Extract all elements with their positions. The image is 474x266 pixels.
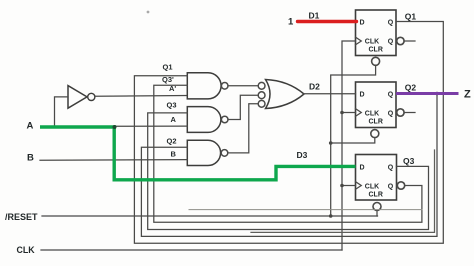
NAND gate G2 (Q3,A) (187, 107, 228, 133)
NAND gate G1 (Q1,Q3',A') (187, 73, 228, 99)
svg-text:Q3: Q3 (167, 100, 177, 109)
U2 Qbar stub (404, 40, 415, 42)
OR gate G4 with inverted inputs (258, 80, 304, 109)
junction CLR bus at U3 (329, 141, 333, 145)
svg-text:Q2: Q2 (405, 83, 417, 93)
scan speck (147, 11, 150, 14)
svg-text:Q: Q (388, 184, 394, 191)
wire Z output (purple) (396, 92, 459, 95)
svg-text:Q3: Q3 (403, 156, 415, 166)
U3 CLK triangle (356, 109, 362, 117)
svg-text:Q: Q (388, 39, 394, 46)
svg-text:B: B (27, 153, 34, 164)
wire G2 out to G4 in2 (228, 95, 258, 119)
svg-text:A': A' (169, 84, 176, 93)
svg-text:D3: D3 (297, 150, 308, 160)
svg-text:D2: D2 (309, 82, 320, 92)
svg-text:/RESET: /RESET (5, 212, 38, 222)
inverter U1 (68, 86, 95, 109)
U2 CLK triangle (356, 37, 362, 45)
wire inverter input tap from A (55, 97, 69, 127)
U2 Qbar bubble (397, 37, 404, 44)
wire CLK input (41, 249, 342, 251)
svg-text:CLR: CLR (369, 192, 383, 199)
U4 Qbar bubble (397, 182, 404, 189)
wire D2 from G4 to U3 (304, 93, 356, 95)
svg-text:D: D (360, 19, 365, 26)
D flip-flop U4 box (356, 155, 397, 201)
svg-text:A: A (27, 121, 34, 132)
wire CLK bus vertical (342, 41, 356, 250)
wire A / D3 (green) (40, 127, 356, 180)
svg-text:Q: Q (388, 164, 394, 171)
D flip-flop U3 box (356, 82, 397, 128)
svg-text:Q1: Q1 (163, 63, 173, 72)
junction A green (113, 125, 117, 129)
wire D1 constant 1 (red) (298, 20, 357, 23)
NAND gate G3 (Q2,B) (187, 140, 228, 165)
U4 CLR bubble (373, 203, 381, 211)
wire Q3 feedback (148, 113, 429, 230)
svg-text:D: D (360, 164, 365, 171)
junction CLK at U4 (340, 184, 344, 188)
svg-text:Q: Q (388, 91, 394, 98)
svg-text:D1: D1 (309, 11, 320, 21)
D flip-flop U2 box (356, 10, 397, 56)
U3 pin labels (360, 91, 394, 125)
wire CLK stub U3 (342, 112, 356, 114)
svg-text:CLR: CLR (369, 119, 383, 126)
wire A' from inverter to NAND1 (95, 95, 187, 98)
svg-text:Q: Q (388, 111, 394, 118)
wire A to G2 (114, 125, 187, 127)
wire U3 CLR to clear bus (331, 138, 375, 143)
U3 Qbar bubble (397, 109, 404, 116)
wire B to G3 (40, 159, 187, 162)
wire /RESET (42, 215, 378, 217)
wire unconnected feedback segment (251, 150, 435, 232)
U2 CLR bubble (372, 57, 380, 65)
wire G1 out to G4 in1 (228, 85, 258, 87)
svg-text:Q2: Q2 (167, 137, 177, 146)
svg-text:CLK: CLK (365, 39, 379, 46)
svg-text:1: 1 (288, 17, 294, 28)
U3 Qbar stub (404, 112, 415, 114)
svg-text:CLK: CLK (365, 111, 379, 118)
U2 pin labels (360, 19, 394, 53)
svg-text:CLK: CLK (365, 184, 379, 191)
svg-text:A: A (171, 115, 177, 124)
U4 pin labels (360, 164, 394, 198)
wire Q3bar feedback (154, 85, 422, 222)
wire artifact segment (189, 209, 422, 211)
wire U4 CLR to /RESET (376, 211, 378, 217)
wire Q1 feedback (134, 22, 443, 244)
U4 CLK triangle (356, 182, 362, 190)
wire U2 CLR to clear bus (331, 66, 376, 217)
svg-text:Z: Z (464, 89, 471, 101)
svg-text:B: B (171, 150, 177, 159)
wire Q2 feedback (141, 94, 437, 237)
svg-text:Q1: Q1 (405, 12, 417, 22)
junction Q2 on purple (435, 92, 439, 96)
wire G3 out to G4 in3 (228, 104, 258, 153)
svg-text:CLK: CLK (17, 245, 36, 255)
svg-text:D: D (360, 91, 365, 98)
svg-text:Q3': Q3' (162, 75, 174, 84)
svg-text:Q: Q (388, 19, 394, 26)
junction CLK at U3 (340, 111, 344, 115)
U3 CLR bubble (371, 130, 379, 138)
wire CLK stub U4 (342, 185, 356, 187)
junction /RESET clear bus (329, 214, 333, 218)
svg-text:CLR: CLR (369, 47, 383, 54)
